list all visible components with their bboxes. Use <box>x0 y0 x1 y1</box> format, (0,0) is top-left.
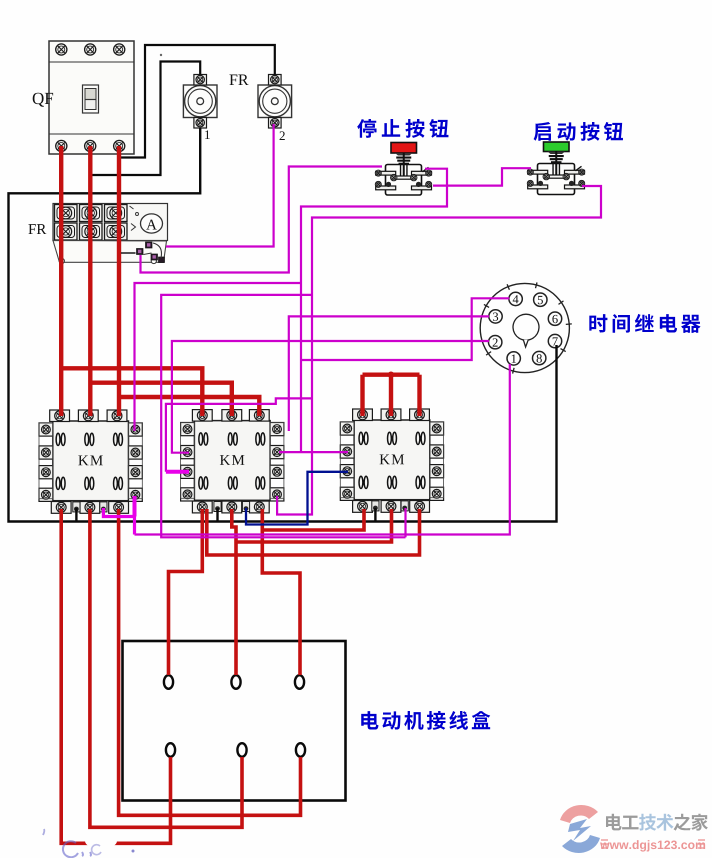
wire start button right lower to net B (magenta) <box>277 186 601 515</box>
wire KM2 out 1 to motor terminal 1 (red) <box>169 509 203 675</box>
thermal relay FR block <box>53 204 168 264</box>
thermal element FR heater 1 <box>183 75 217 129</box>
wire FR heater 1 to left bus, bottom bus, relay pin 7 (black) <box>9 128 557 522</box>
thermal element FR heater 2 <box>258 75 292 129</box>
label time-relay-text 时间继电器 <box>589 314 700 333</box>
contactor KM1 label KM <box>78 455 102 465</box>
stray dot <box>160 54 162 56</box>
wire KM2 out 2 to motor terminal 2 (red) <box>232 509 236 675</box>
wire KM3 aux terminal to bottom bus (black) <box>374 508 376 523</box>
contactor KM3 body <box>354 420 430 500</box>
wire KM1 out W to motor W2 (red) <box>119 509 301 815</box>
wire KM1 out V to motor V2 (red) <box>90 509 242 827</box>
contactor KM1 top terminals <box>50 410 127 422</box>
contactor KM1 body <box>53 421 129 501</box>
pushbutton stop SB1 <box>375 143 431 196</box>
wire KM2 out 2 to KM3 out 2 link (red) <box>236 509 392 542</box>
contactor KM2 label KM <box>220 455 244 465</box>
label 1 (heater) <box>205 130 210 139</box>
contactor KM2 bottom terminals <box>192 501 269 513</box>
wire blue KM2 small to KM3 left 3 <box>246 472 348 525</box>
wire KM2 out 3 down to motor terminal 3 (red) <box>262 509 300 675</box>
wire L3 branch to KM3... to KM2 (red) <box>119 397 259 416</box>
contactor KM2 top terminals <box>192 410 269 422</box>
wire stop button right down (magenta) <box>301 169 447 452</box>
wire net A to KM2/KM3 aux (magenta) <box>279 451 348 453</box>
wire L1 branch to KM2 (red) <box>61 368 202 416</box>
motor terminal box <box>123 641 346 801</box>
watermark bottom left faint <box>43 829 135 857</box>
wire KM1 aux terminal to bottom bus (black) <box>75 508 77 522</box>
wire FR NC a to FR heater 2 bottom (magenta) <box>166 124 274 247</box>
contactor KM3 label KM <box>380 454 404 464</box>
watermark logo bottom right <box>560 805 600 853</box>
junction dot KM3 bridge <box>388 372 394 378</box>
wire net B branch H294.9 to coil return bus (magenta) <box>161 295 405 537</box>
contactor KM2 body <box>194 421 270 501</box>
wire KM1 out U to motor U2 (red) <box>61 509 170 843</box>
wire L2 branch to KM2 (red) <box>90 383 232 416</box>
wire relay pin 2 left (magenta) <box>172 341 489 453</box>
pointer line to FR NC (black) <box>121 252 136 254</box>
wire QF L2 to FR heater 1 (black) <box>90 62 200 176</box>
contactor KM3 bottom terminals <box>353 501 430 513</box>
label FR (top) <box>229 75 248 85</box>
contactor KM3 top terminals <box>353 409 430 421</box>
contactor KM1 side terminals <box>39 423 142 502</box>
watermark url banner <box>600 840 705 852</box>
label QF <box>33 93 53 107</box>
label motor-box-text 电动机接线盒 <box>361 711 490 730</box>
wire KM2 out3 to KM3 aux small bus (magenta) <box>404 508 406 537</box>
time relay pins 1-8 <box>489 292 562 365</box>
wire relay pin 1 down to coil bus (magenta) <box>135 364 510 535</box>
label stop-button-text 停止按钮 <box>357 119 448 138</box>
label FR (block) <box>28 224 46 234</box>
wire relay pin 3 down to KM2 aux (magenta) <box>289 316 489 431</box>
circuit breaker QF <box>49 41 134 154</box>
label 2 (heater) <box>280 131 285 140</box>
contactor KM2 side terminals <box>181 423 284 502</box>
wire QF L3 to FR heater 2 (black) <box>119 45 275 158</box>
time relay socket body <box>480 282 572 373</box>
label watermark-text 电工技术之家 <box>606 814 708 831</box>
FR NC auxiliary contact <box>137 242 165 263</box>
wire KM3 out 3 to motor terminal 3 (red) <box>207 509 420 555</box>
wire KM3 star bridge bus (red) <box>363 373 420 377</box>
contactor KM3 side terminals <box>340 422 443 501</box>
wire FR NC b to stop button left (magenta) <box>141 167 383 273</box>
pushbutton start SB2 <box>527 142 584 195</box>
wire KM3 out 1 link (red) <box>262 509 364 530</box>
wire L2 QF to FR block to KM1 (red) <box>88 146 92 416</box>
wire KM2 aux terminal to bottom bus (black) <box>216 508 218 523</box>
wire net B jog to KM2 coil terminal left 3 (magenta) <box>166 398 312 471</box>
wire L3 QF to FR block to KM1 (red) <box>117 146 121 416</box>
label start-button-text 启动按钮 <box>534 122 623 141</box>
contactor KM1 bottom terminals <box>51 502 128 514</box>
wire start button left upper (magenta) <box>433 168 531 185</box>
wire thick pink into KM2 left 3 <box>166 470 189 474</box>
wire KM1 aux small to KM1 coil terminal (magenta thick) <box>103 508 134 535</box>
wire branch to KM1 coil (magenta) <box>135 283 302 431</box>
wire L1 QF to FR block to KM1 (red) <box>59 146 63 416</box>
wire relay pin 4 loop (magenta) <box>301 298 509 360</box>
